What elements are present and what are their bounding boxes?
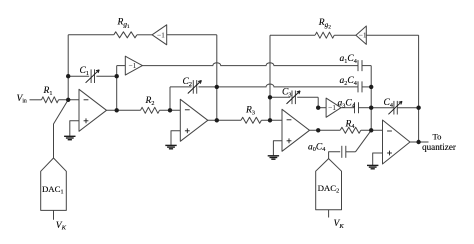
svg-text:−1: −1	[157, 30, 165, 39]
svg-text:a0C4: a0C4	[308, 142, 325, 153]
svg-text:C2: C2	[183, 77, 192, 88]
svg-text:R4: R4	[345, 119, 355, 130]
svg-text:Rg1: Rg1	[117, 18, 130, 31]
svg-text:−1: −1	[128, 61, 136, 70]
svg-text:C3: C3	[282, 88, 291, 99]
svg-text:a1C4: a1C4	[340, 54, 357, 65]
svg-text:R1: R1	[43, 86, 53, 97]
svg-text:DAC1: DAC1	[42, 184, 64, 196]
svg-text:Vin: Vin	[17, 94, 27, 105]
svg-text:VK: VK	[334, 219, 345, 230]
svg-text:quantizer: quantizer	[422, 142, 456, 152]
svg-text:a2C4: a2C4	[340, 76, 357, 87]
svg-text:To: To	[433, 132, 442, 142]
svg-text:a3C4: a3C4	[338, 99, 355, 110]
svg-text:C1: C1	[80, 66, 89, 77]
svg-text:Rg2: Rg2	[318, 18, 331, 31]
svg-text:C4: C4	[384, 98, 393, 109]
svg-text:−1: −1	[328, 103, 336, 112]
svg-text:R3: R3	[245, 106, 255, 117]
svg-text:DAC2: DAC2	[318, 183, 340, 195]
svg-text:−1: −1	[359, 31, 367, 40]
svg-text:R2: R2	[145, 96, 155, 107]
svg-text:VK: VK	[56, 221, 67, 232]
